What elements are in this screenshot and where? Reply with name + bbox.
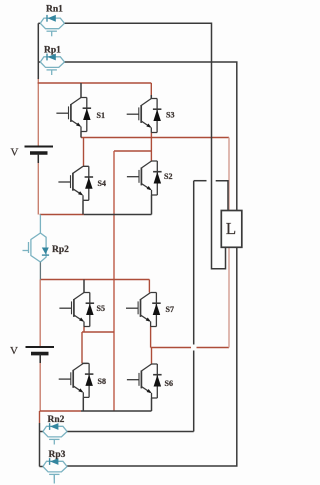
svg-text:S1: S1 xyxy=(97,111,105,120)
svg-text:S5: S5 xyxy=(97,304,105,313)
svg-text:Rp3: Rp3 xyxy=(49,450,66,460)
svg-text:Rn1: Rn1 xyxy=(46,5,63,15)
svg-text:S8: S8 xyxy=(98,377,106,386)
svg-text:Rp2: Rp2 xyxy=(52,245,69,255)
svg-text:Rn2: Rn2 xyxy=(48,415,65,425)
svg-text:S2: S2 xyxy=(164,172,172,181)
svg-text:S7: S7 xyxy=(166,305,174,314)
svg-text:L: L xyxy=(226,219,236,238)
svg-text:S4: S4 xyxy=(98,179,106,188)
svg-text:S6: S6 xyxy=(165,379,173,388)
svg-text:V: V xyxy=(11,147,19,159)
svg-text:V: V xyxy=(10,345,18,357)
svg-text:Rp1: Rp1 xyxy=(44,46,61,56)
svg-text:S3: S3 xyxy=(166,111,174,120)
